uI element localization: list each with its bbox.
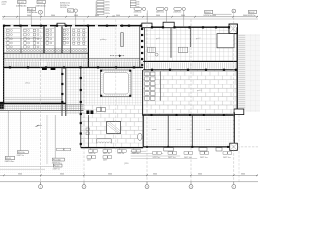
svg-text:3600: 3600 xyxy=(18,174,22,176)
stair leader 3 xyxy=(183,11,185,28)
centre annotation pair 2 xyxy=(103,150,107,153)
west exterior wall xyxy=(3,25,5,103)
upper dimension line 2 xyxy=(2,18,258,20)
keynote stack C xyxy=(97,1,104,3)
south tag L4 xyxy=(53,164,62,167)
east dashed line at room base xyxy=(237,146,258,148)
svg-text:243700.5e: 243700.5e xyxy=(27,12,38,14)
lower dimension line B xyxy=(0,181,258,183)
mid-east double wall xyxy=(139,26,141,67)
door thresholds xyxy=(42,67,47,70)
svg-text:243700: 243700 xyxy=(60,7,68,9)
svg-text:3: 3 xyxy=(147,187,148,189)
lower dimension ticks xyxy=(40,174,42,176)
threshold marks centre xyxy=(86,110,89,114)
east outdoor paving xyxy=(246,34,261,112)
north vestibule A xyxy=(142,23,152,28)
svg-text:room: room xyxy=(177,129,182,131)
svg-text:3600: 3600 xyxy=(153,174,157,176)
north-east corner stair xyxy=(229,24,238,34)
svg-text:2437 5e+: 2437 5e+ xyxy=(200,157,209,159)
svg-text:2437: 2437 xyxy=(87,159,91,161)
south rooms top wall xyxy=(143,114,235,116)
svg-text:2437 5e+: 2437 5e+ xyxy=(184,157,193,159)
leader A1 xyxy=(19,4,21,26)
grid bubble top F xyxy=(232,9,236,13)
svg-text:3600: 3600 xyxy=(116,15,120,17)
svg-text:FD-14: FD-14 xyxy=(54,165,60,167)
leader A3 xyxy=(30,11,32,26)
east stair landing xyxy=(234,109,244,115)
white boxes centre xyxy=(97,107,101,111)
leader L2 xyxy=(19,111,21,151)
section cut mark xyxy=(110,55,125,57)
svg-text:2437e: 2437e xyxy=(105,2,110,4)
east tag 2 xyxy=(248,10,256,13)
svg-text:1: 1 xyxy=(40,187,41,189)
south leader rail 2 xyxy=(0,168,45,170)
toilet block south wall xyxy=(4,52,89,54)
south-east tags xyxy=(153,152,157,155)
right hall brick floor xyxy=(143,70,237,115)
south rooms west wall xyxy=(142,115,144,147)
south-west walkway hatch xyxy=(0,105,2,111)
columns north wall xyxy=(3,25,5,27)
west wall poche lower xyxy=(3,55,5,57)
svg-text:3600: 3600 xyxy=(198,174,202,176)
north corridor south wall west xyxy=(4,66,144,68)
mid block shaft xyxy=(121,33,124,47)
svg-text:gallery: gallery xyxy=(100,38,107,41)
grid line C xyxy=(115,20,117,153)
courtyard inner edge xyxy=(103,73,128,94)
south tag L3 xyxy=(52,158,64,161)
right wing partition 2 xyxy=(190,28,192,47)
svg-text:2437 5e+: 2437 5e+ xyxy=(153,157,162,159)
svg-text:2437 5e+: 2437 5e+ xyxy=(168,157,177,159)
vertical corridor east wall xyxy=(80,67,82,147)
washroom aisle comb xyxy=(4,54,6,58)
centre annotation row 2a xyxy=(87,156,91,159)
north corridor hatch xyxy=(3,62,5,67)
north corridor mid line xyxy=(4,60,143,62)
grid line F xyxy=(233,13,235,184)
south rooms bottom wall xyxy=(143,146,236,148)
svg-text:4: 4 xyxy=(233,11,234,13)
svg-text:3600: 3600 xyxy=(51,15,55,17)
south yard paving dots xyxy=(0,116,84,174)
courtyard coping ticks xyxy=(101,70,103,72)
svg-text:243: 243 xyxy=(137,4,140,6)
callout tag A2 xyxy=(37,0,45,3)
leader B xyxy=(75,12,77,25)
grid line B xyxy=(83,20,85,185)
svg-text:3600: 3600 xyxy=(108,174,112,176)
north vestibule B xyxy=(163,22,174,28)
toilet stalls row 1 xyxy=(7,29,10,32)
svg-text:2437 5e: 2437 5e xyxy=(89,153,96,155)
grid bubble top A xyxy=(38,10,42,14)
stall mid partition line xyxy=(4,38,42,40)
left hall east double wall xyxy=(61,67,63,116)
south-east leader rails xyxy=(131,150,147,152)
leader L4 xyxy=(46,115,48,164)
svg-text:243: 243 xyxy=(112,16,115,18)
svg-text:5: 5 xyxy=(233,187,234,189)
south-west walkway lines xyxy=(0,104,84,106)
svg-text:2: 2 xyxy=(84,187,85,189)
svg-text:2437 5e: 2437 5e xyxy=(103,153,110,155)
centre leaders xyxy=(90,148,92,150)
callout bubble B xyxy=(74,9,77,12)
svg-text:FD-12a: FD-12a xyxy=(18,152,26,154)
toilet stalls row 2 xyxy=(24,29,27,32)
west wall poche xyxy=(3,27,5,29)
keynote stack D xyxy=(130,1,136,3)
svg-text:2437 5e: 2437 5e xyxy=(117,153,124,155)
upper dimension ticks xyxy=(3,16,5,18)
columns corridor west xyxy=(9,66,11,68)
svg-text:EV-01: EV-01 xyxy=(205,12,211,14)
svg-text:24370 5e: 24370 5e xyxy=(203,15,212,17)
svg-text:3600: 3600 xyxy=(134,15,138,17)
left hall stage steps xyxy=(4,97,62,99)
centre south brick floor xyxy=(81,105,143,148)
svg-text:FL-01: FL-01 xyxy=(18,2,24,4)
columns corridor east xyxy=(151,69,153,71)
south tag pair M0 xyxy=(57,148,64,151)
hatched plant room xyxy=(107,122,121,134)
centre annotation pair 1 xyxy=(89,150,93,153)
svg-text:2437: 2437 xyxy=(2,4,6,6)
svg-text:3600: 3600 xyxy=(60,174,64,176)
svg-text:243700.5e: 243700.5e xyxy=(35,5,46,7)
svg-text:24370 5e+: 24370 5e+ xyxy=(5,161,16,163)
lavatory counter xyxy=(6,47,87,49)
right wing meeting room xyxy=(217,34,234,48)
oval fixture xyxy=(138,133,142,140)
north wall east section xyxy=(152,26,163,28)
north-west bay window xyxy=(57,23,65,26)
svg-text:}120: }120 xyxy=(125,163,129,165)
svg-text:2437 5e+: 2437 5e+ xyxy=(223,157,232,159)
south rooms floor xyxy=(144,116,234,147)
callout tag A3 xyxy=(27,7,35,10)
grid bubbles bottom xyxy=(40,182,42,185)
lower dimension line A xyxy=(0,174,258,176)
east leader xyxy=(213,13,232,15)
svg-text:room: room xyxy=(152,129,157,131)
south tag L1 xyxy=(5,157,15,160)
svg-text:24370.5e: 24370.5e xyxy=(173,12,181,14)
stair callout 2 xyxy=(156,7,164,10)
svg-text:room: room xyxy=(206,129,211,131)
stair leader 1 xyxy=(146,10,148,23)
svg-text:FL-02: FL-02 xyxy=(38,2,44,4)
svg-text:3600: 3600 xyxy=(212,15,216,17)
svg-text:243700.5e: 243700.5e xyxy=(16,5,27,7)
svg-text:2437 5e: 2437 5e xyxy=(53,169,61,171)
south rooms divider 1 xyxy=(167,116,169,147)
callout tag B xyxy=(68,9,74,12)
small cabinets xyxy=(86,128,89,130)
svg-text:3600: 3600 xyxy=(156,15,160,17)
callout tag A1 xyxy=(18,0,26,3)
svg-text:FD-11: FD-11 xyxy=(6,158,12,160)
left hall south wall xyxy=(0,102,66,104)
south rooms divider 2 xyxy=(191,116,193,147)
svg-text:2437e: 2437e xyxy=(105,13,110,15)
columns south rooms xyxy=(151,114,153,116)
west wall foot xyxy=(0,102,4,109)
south tag L2 xyxy=(17,151,28,154)
svg-text:24370 5e: 24370 5e xyxy=(247,15,256,17)
svg-text:3600: 3600 xyxy=(27,15,31,17)
east corridor south wall xyxy=(143,69,237,71)
stair leader 2 xyxy=(165,11,167,23)
courtyard surround tiles xyxy=(81,68,143,105)
grid line A xyxy=(40,14,42,184)
svg-text:24370.5e: 24370.5e xyxy=(134,12,142,14)
door openings north wall xyxy=(11,25,14,27)
yard arrow mark xyxy=(35,125,40,127)
svg-text:2437 5e: 2437 5e xyxy=(17,155,25,157)
east corridor hatch xyxy=(144,63,146,69)
svg-text:2437e: 2437e xyxy=(105,7,110,9)
grid line D xyxy=(146,13,148,184)
svg-text:office: office xyxy=(25,83,31,85)
svg-text:3600: 3600 xyxy=(241,174,245,176)
stall partition combs xyxy=(5,28,20,30)
east wall dashed centreline xyxy=(238,115,240,183)
leader L3 xyxy=(54,115,56,158)
svg-text:EV-02: EV-02 xyxy=(249,12,255,14)
courtyard outer edge xyxy=(101,70,132,97)
upper dimension line 1 xyxy=(2,16,258,18)
escalator marks xyxy=(148,47,156,52)
stair callout 3 xyxy=(174,7,182,10)
door vestibules below wall xyxy=(164,148,173,151)
east corridor north wall xyxy=(143,60,237,62)
centre block south wall xyxy=(81,147,143,149)
left hall floor xyxy=(4,68,62,103)
keynote stack C leader xyxy=(95,2,97,17)
svg-text:2437e: 2437e xyxy=(105,10,110,12)
south leader rail 1 xyxy=(0,166,53,168)
toilet stalls row 3 xyxy=(46,29,49,32)
grid line E xyxy=(190,20,192,185)
svg-text:24370.5e: 24370.5e xyxy=(156,12,164,14)
leader L1 xyxy=(7,111,9,157)
east exterior wall xyxy=(236,27,238,110)
south rooms east wall xyxy=(233,112,235,148)
svg-text:3600: 3600 xyxy=(181,15,185,17)
upper right wing tiles xyxy=(145,28,237,61)
svg-text:4: 4 xyxy=(191,187,192,189)
gallery floor xyxy=(88,27,139,58)
svg-text:243: 243 xyxy=(137,2,140,4)
svg-text:2437e: 2437e xyxy=(105,4,110,6)
stair callout 1 xyxy=(134,7,142,10)
fixtures east room xyxy=(73,30,75,32)
svg-text:3600: 3600 xyxy=(74,15,78,17)
north corridor upper line xyxy=(4,57,140,59)
north wall west section xyxy=(3,25,57,27)
courtyard corner columns xyxy=(100,70,102,72)
vertical corridor tiles xyxy=(66,68,81,114)
north corridor tiles xyxy=(4,59,143,68)
leader A2 xyxy=(44,4,46,17)
centre block east wall xyxy=(88,115,90,148)
centre annotation pair 3 xyxy=(117,150,121,153)
right wing partition 1 xyxy=(170,28,172,58)
centre annotation row 2b xyxy=(103,156,107,159)
mid-south wall between halls xyxy=(142,70,144,116)
locker tables xyxy=(145,72,150,76)
toilet block walls xyxy=(20,26,22,53)
svg-text:2437: 2437 xyxy=(103,159,107,161)
svg-text:2: 2 xyxy=(40,12,41,14)
svg-text:3600: 3600 xyxy=(95,15,99,17)
svg-text:FD-13ab: FD-13ab xyxy=(53,159,62,161)
centre annotation pair 4 xyxy=(132,150,136,153)
scalloped bench xyxy=(97,139,111,144)
south-east stair block xyxy=(230,143,238,150)
east walkway xyxy=(238,34,246,110)
east tag 1 xyxy=(205,10,213,13)
